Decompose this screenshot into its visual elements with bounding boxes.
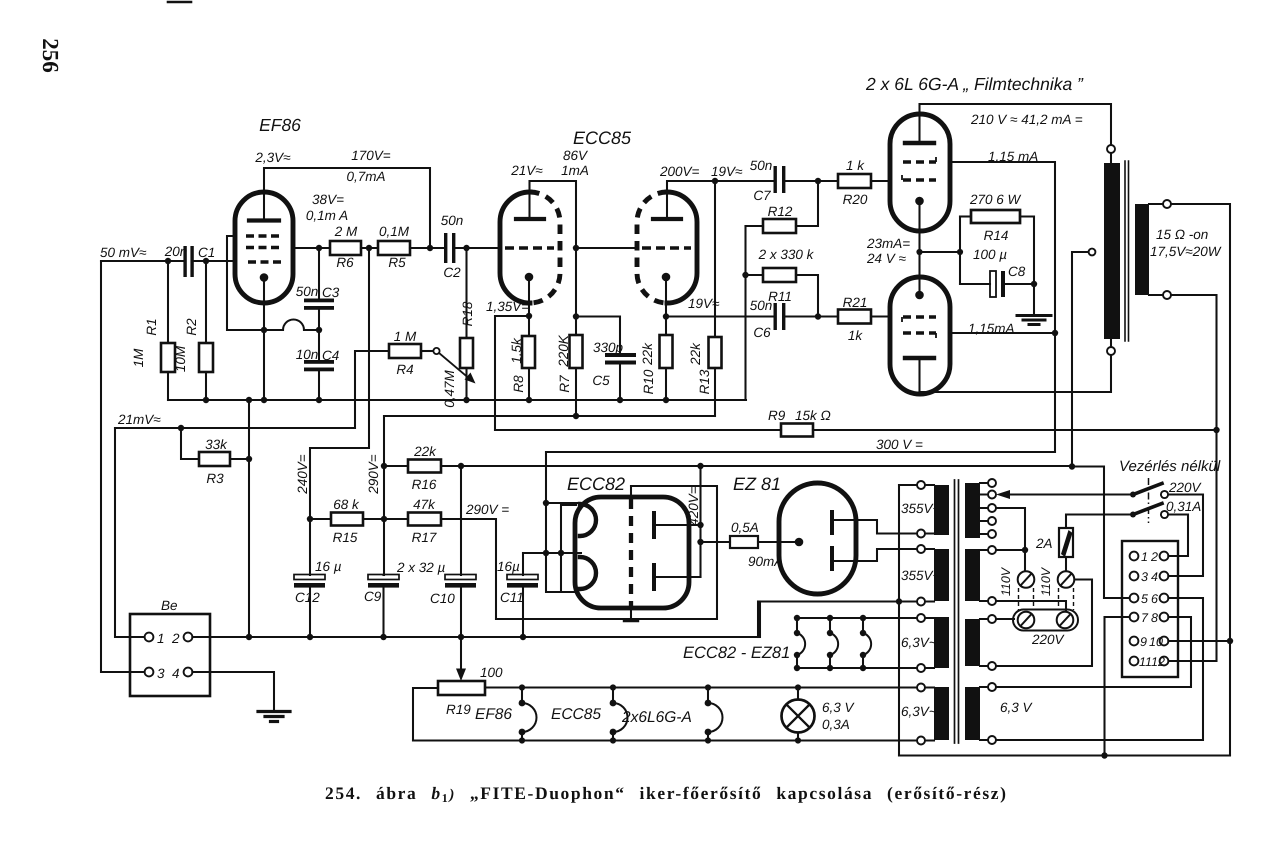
caption	[325, 783, 1008, 805]
svg-text:C12: C12	[295, 590, 320, 605]
label Vezerles nelkul	[1119, 458, 1221, 475]
svg-text:254. ábra b1) „FITE-Duopho: 254. ábra b1) „FITE-Duophon“ iker-főerős…	[325, 783, 1008, 805]
svg-text:256: 256	[38, 38, 63, 73]
label 2x6L6G-A Filmtechnika title	[865, 74, 1084, 94]
power transformer primary bars (right)	[965, 483, 980, 740]
svg-text:3: 3	[157, 666, 165, 681]
label 19V cathode	[688, 296, 720, 311]
wire: t1 plate to t2 grid	[576, 247, 637, 249]
wire: heater bottom rail	[413, 739, 917, 741]
label R9 (R9, 15kΩ)	[768, 408, 831, 423]
svg-text:R12: R12	[768, 204, 793, 219]
svg-text:ECC82 - EZ81: ECC82 - EZ81	[683, 644, 790, 662]
junction dot C8 right	[1031, 281, 1037, 287]
wire: centre tap to 420V line	[1072, 252, 1089, 467]
svg-text:22k: 22k	[688, 342, 703, 366]
svg-text:1,15mA: 1,15mA	[968, 321, 1015, 336]
wire: input drop to Be pin3	[101, 261, 145, 672]
svg-text:EF86: EF86	[259, 115, 301, 135]
svg-text:23mA=: 23mA=	[866, 236, 910, 251]
junction dots cathode node 1,35V	[526, 245, 579, 320]
svg-text:200V=: 200V=	[659, 164, 700, 179]
voltage selector plug 110V #1	[1018, 571, 1035, 588]
svg-text:270 6 W: 270 6 W	[969, 192, 1022, 207]
heater hump 2	[829, 618, 831, 668]
220V linking bar	[1013, 610, 1078, 631]
EZ81 cathode dot	[795, 538, 804, 547]
wire: EF86 screen out to R6	[293, 247, 330, 249]
svg-text:17,5V≈20W: 17,5V≈20W	[1150, 244, 1222, 259]
svg-text:0,1M: 0,1M	[379, 224, 410, 239]
svg-text:110V: 110V	[1039, 566, 1053, 596]
resistor R7	[575, 317, 577, 335]
label heater 2x6L6G-A	[621, 709, 692, 726]
chassis ground symbol	[258, 712, 290, 722]
6L6 upper grid dashes	[902, 175, 936, 180]
label EZ81 title	[733, 474, 781, 494]
label 2A	[1035, 536, 1053, 551]
svg-text:2A: 2A	[1035, 536, 1053, 551]
svg-text:0,5A: 0,5A	[731, 520, 759, 535]
junction dots 420V line	[458, 463, 1075, 470]
svg-text:2,3V≈: 2,3V≈	[254, 150, 291, 165]
label 220V	[1031, 632, 1066, 647]
wire: C6 to R21	[785, 315, 838, 317]
svg-text:1M: 1M	[131, 348, 146, 368]
6L6 upper anode bar	[905, 141, 934, 145]
svg-text:ECC85: ECC85	[573, 128, 632, 148]
svg-text:1 k: 1 k	[846, 158, 865, 173]
svg-text:R2: R2	[184, 318, 199, 336]
svg-text:R6: R6	[336, 255, 354, 270]
wire: R16 output 420V line to connector pin5	[441, 466, 1104, 598]
junction dots cathode node 23mA	[916, 249, 963, 255]
wire: tap 550 to junction	[996, 549, 1025, 551]
wire: R14 right leg to ground	[1033, 217, 1035, 315]
label C10	[430, 591, 455, 606]
label 2x330k	[758, 247, 815, 262]
resistor R1	[167, 261, 169, 343]
wire: ground drop from rail A through R3 node to bottom rail	[248, 400, 250, 637]
svg-text:5: 5	[1141, 592, 1148, 606]
label C2 (50n, C2)	[441, 213, 464, 280]
label 0,31A	[1166, 499, 1201, 514]
label R8 (1,5k, R8) rotated	[509, 337, 526, 393]
svg-text:15 Ω -on: 15 Ω -on	[1156, 227, 1208, 242]
label R19 (100, R19)	[446, 665, 503, 717]
capacitor C11 (electrolytic)	[522, 553, 524, 575]
ECC82 anode arcs	[580, 504, 596, 536]
svg-text:C11: C11	[500, 590, 524, 605]
svg-text:R13: R13	[697, 369, 712, 394]
wire: tap 508 jumper down	[996, 508, 1025, 571]
6L6 upper screen dashes	[903, 157, 936, 162]
junction dot R9 to secondary line	[1213, 427, 1219, 433]
resistor R14	[960, 215, 971, 217]
label 240V rotated	[295, 454, 310, 495]
svg-text:50n: 50n	[441, 213, 464, 228]
capacitor C9 (electrolytic)	[382, 574, 385, 576]
label 210V 41,2mA	[970, 112, 1083, 127]
label R6 (2M, R6)	[334, 224, 358, 270]
selector dashed guides	[1019, 588, 1074, 610]
potentiometer R18 body	[465, 248, 467, 338]
svg-text:R11: R11	[768, 289, 792, 304]
svg-text:C3: C3	[322, 285, 340, 300]
wire: upper anode to output transformer top	[920, 104, 1112, 145]
svg-text:355V~: 355V~	[901, 568, 941, 583]
output transformer primary bottom terminal	[1107, 347, 1115, 355]
svg-text:1 M: 1 M	[394, 329, 417, 344]
wire: Be pin4 to chassis ground	[192, 672, 274, 711]
label C1 values (20n, C1)	[164, 244, 216, 260]
label R5 (0,1M, R5)	[379, 224, 410, 270]
resistor R9 in feedback line	[495, 429, 781, 431]
tube ECC82 envelope	[575, 497, 689, 608]
label 170V / 0,7mA	[346, 148, 390, 184]
wire: secondary top to common rail (right edge)	[1171, 204, 1230, 755]
wire: C7 to R20	[785, 180, 838, 182]
6L6 lower anode bar	[905, 356, 934, 360]
wire: switch pole 2 to pin2	[1168, 515, 1188, 557]
wire: upper screen to screens node	[950, 162, 1055, 452]
wire: R6 to R5	[361, 247, 378, 249]
svg-text:ECC82: ECC82	[567, 474, 625, 494]
resistor R5	[378, 241, 410, 255]
wire: common drop to ground rail	[759, 602, 761, 638]
wire: C11 top to 300V branch	[523, 552, 546, 554]
mains input arrowhead	[996, 490, 1010, 499]
6L6 upper cathode dot	[915, 197, 924, 206]
svg-text:220V: 220V	[1031, 632, 1066, 647]
label R4 (1M, R4)	[394, 329, 417, 377]
svg-text:R10: R10	[641, 369, 656, 394]
label ECC85 title	[573, 128, 632, 148]
wire: Be pin2 to ground rail	[192, 636, 758, 638]
svg-text:6,3 V: 6,3 V	[1000, 700, 1034, 715]
junction dot R3 right	[246, 456, 252, 462]
label R20 (1k, R20)	[843, 158, 868, 207]
capacitor C10 (electrolytic)	[460, 466, 462, 575]
label C4 (10n, C4)	[296, 347, 340, 363]
wire: ECC82/EZ81 heater bottom rail	[797, 667, 917, 669]
label C7 (50n, C7)	[750, 158, 773, 203]
label heater ECC85	[551, 706, 601, 723]
label R12	[768, 204, 793, 219]
fuse 0,5A	[701, 541, 731, 543]
svg-text:220V: 220V	[1168, 480, 1203, 495]
svg-text:3: 3	[1141, 570, 1148, 584]
label 38V= / 0,1mA	[306, 192, 348, 223]
junction dot C3/C4 node	[316, 327, 322, 333]
heater hump 1	[796, 618, 798, 668]
label R15 (68k, R15)	[333, 497, 360, 545]
Be pin terminals	[145, 633, 154, 642]
svg-text:R7: R7	[557, 375, 572, 393]
label 420V rotated	[686, 486, 701, 526]
wire: arc to C3/C4 node	[304, 329, 319, 331]
label C6 (50n, C6)	[750, 298, 773, 340]
label 290V = at R17 output	[465, 502, 509, 517]
resistor R12	[746, 225, 764, 227]
svg-text:100 µ: 100 µ	[973, 247, 1007, 262]
wire: plate node to C5	[576, 317, 620, 354]
node: 21mV label	[117, 412, 161, 427]
output transformer secondary terminals	[1163, 200, 1171, 208]
svg-text:ECC85: ECC85	[551, 706, 601, 723]
wire: tap 666 up to 110V plug #2	[996, 580, 1092, 667]
left terminal stubs	[925, 485, 934, 741]
svg-text:4: 4	[1151, 570, 1158, 584]
tube EF86 V1 envelope	[235, 192, 293, 303]
svg-text:1,5k: 1,5k	[509, 337, 524, 364]
label 200V= / 19V	[659, 164, 743, 179]
svg-text:420V=: 420V=	[686, 486, 701, 526]
svg-text:24 V ≈: 24 V ≈	[866, 251, 907, 266]
tube EZ81 envelope	[779, 483, 856, 594]
resistor R3	[199, 452, 230, 466]
label 1,15mA upper	[988, 149, 1038, 164]
tube ECC85 triode 1 envelope (dashed right half)	[530, 192, 560, 303]
label 355V~ upper	[901, 501, 941, 516]
svg-text:50n: 50n	[296, 284, 319, 299]
switch mechanical link (dash-dot)	[1148, 478, 1150, 523]
wire: R19 left to heater bottom rail	[413, 688, 438, 741]
svg-text:86V: 86V	[563, 148, 589, 163]
junction dot pin10/speaker	[1227, 638, 1233, 644]
svg-text:33k: 33k	[205, 437, 228, 452]
tube 6L6 upper envelope	[890, 114, 950, 231]
output transformer secondary winding	[1135, 204, 1149, 295]
svg-text:Vezérlés nélkül: Vezérlés nélkül	[1119, 458, 1221, 475]
label 1,15mA lower	[968, 321, 1015, 336]
capacitor C1	[183, 246, 193, 277]
svg-text:355V~: 355V~	[901, 501, 941, 516]
heater 2x6L6G-A	[707, 688, 709, 741]
junction dots on ground rail	[246, 634, 526, 640]
wire: R14 left leg	[959, 217, 961, 285]
pilot lamp 6,3V 0,3A	[782, 700, 815, 733]
svg-text:19V≈: 19V≈	[711, 164, 743, 179]
potentiometer R18 wiper terminal	[433, 348, 439, 354]
svg-text:50n: 50n	[750, 158, 773, 173]
ECC85 t1 anode bar	[516, 217, 544, 221]
svg-text:2 x 32 µ: 2 x 32 µ	[396, 560, 446, 575]
label 300V=	[876, 437, 923, 452]
svg-text:R14: R14	[984, 228, 1009, 243]
svg-text:C9: C9	[364, 589, 382, 604]
svg-text:240V=: 240V=	[295, 454, 310, 495]
capacitor C5	[605, 353, 636, 365]
wire: grid-circuit box (290V return)	[496, 486, 717, 619]
tube ECC85 triode 2 envelope (dashed left half)	[637, 192, 667, 303]
junction dot C2/R18	[463, 245, 469, 251]
wire: EZ81 lower anode to 355V winding	[834, 549, 917, 561]
svg-text:C2: C2	[443, 265, 461, 280]
label R10 (22k, R10) rotated	[640, 342, 656, 395]
svg-text:Be: Be	[161, 598, 178, 613]
power transformer secondary bars (left)	[934, 485, 949, 740]
svg-text:R21: R21	[843, 295, 868, 310]
wire: lower screen to screens node	[950, 332, 1055, 334]
svg-text:2: 2	[171, 631, 180, 646]
junction dots 420V vertical	[697, 522, 703, 545]
svg-text:2 x 6L 6G-A „ Filmtechnika ”: 2 x 6L 6G-A „ Filmtechnika ”	[865, 74, 1084, 94]
capacitor C12 (electrolytic)	[294, 575, 325, 580]
6L6 lower grid dashes	[902, 317, 936, 322]
junction dot cathode/g3	[261, 327, 267, 333]
resistor R15	[310, 518, 331, 520]
label 2x32u	[396, 560, 446, 575]
label node 2,3V	[254, 150, 291, 165]
label R21 (R21, 1k)	[843, 295, 868, 343]
wire: 300V down leg to ECC82 plates side	[546, 452, 576, 592]
wire: 355V top terminal to centre-tap vertical	[899, 484, 917, 486]
resistor R16	[384, 465, 408, 467]
svg-text:220K: 220K	[556, 334, 571, 368]
svg-text:R19: R19	[446, 702, 471, 717]
junction dot screen/C3	[316, 245, 322, 251]
svg-text:4: 4	[172, 666, 180, 681]
6L6 lower cathode dot	[915, 291, 924, 300]
label 220V switch	[1168, 480, 1203, 495]
svg-text:6: 6	[1151, 592, 1158, 606]
svg-text:1: 1	[1141, 550, 1148, 564]
junction dot tap junction	[1022, 547, 1028, 553]
resistor R4	[389, 344, 421, 358]
6L6 lower screen dashes	[903, 333, 936, 338]
output transformer primary winding	[1104, 163, 1120, 339]
label fuse (0,5A / 90mA)	[731, 520, 783, 569]
junction dots on 300V leg	[543, 500, 564, 556]
wire: fuse top to switch pole 2	[1066, 515, 1133, 529]
connector Be box	[130, 614, 210, 696]
label R3 (33k, R3)	[205, 437, 228, 486]
junction dot 240V takeoff	[366, 245, 372, 251]
svg-text:38V=: 38V=	[312, 192, 344, 207]
svg-text:C6: C6	[753, 325, 771, 340]
junction dots 290V chain	[307, 463, 387, 522]
heater EF86	[521, 688, 523, 741]
wire: 21mV feedback line	[115, 427, 355, 429]
svg-text:0,1m A: 0,1m A	[306, 208, 348, 223]
label 23mA= / 24V	[866, 236, 910, 266]
heater hump 3	[862, 618, 864, 668]
output transformer primary top terminal	[1107, 145, 1115, 153]
wire: R4 from 21mV line	[355, 351, 389, 428]
wire: mains tap to switch pole 1	[1010, 493, 1133, 495]
mains switch pole 1	[1130, 492, 1136, 498]
svg-text:170V=: 170V=	[351, 148, 391, 163]
power transformer core	[954, 480, 956, 743]
label EF86 title	[259, 115, 301, 135]
potentiometer R19 feed arrow from ground rail	[460, 637, 462, 669]
wire: input 50mV line to C1	[101, 260, 183, 262]
wire: 420V vertical at EZ81 output	[699, 466, 701, 577]
wire: 6,3V right winding top to connector pin8	[996, 617, 1191, 687]
svg-text:C4: C4	[322, 348, 339, 363]
label C12 (16u, C12)	[295, 559, 342, 605]
capacitor C2	[444, 233, 455, 263]
junction dot 21mV/R3	[178, 425, 184, 431]
wire: cathode node to R14/C8	[920, 251, 961, 253]
tube 6L6 lower envelope	[890, 277, 950, 394]
wire: t2 cathode lead	[665, 281, 667, 335]
label connector pin numbers	[1139, 550, 1165, 669]
ECC82 grid line (dashed) with extensions	[629, 499, 633, 606]
wire: pin5 to 420V drop	[1104, 597, 1130, 599]
svg-text:2x6L6G-A: 2x6L6G-A	[621, 709, 692, 726]
svg-text:10M: 10M	[173, 345, 188, 372]
svg-text:C1: C1	[198, 245, 215, 260]
resistor R10	[660, 335, 673, 368]
wire: t2 anode riser to 200V line	[667, 181, 775, 219]
svg-text:0,47M: 0,47M	[442, 369, 457, 407]
ECC85 t2 grid dashes	[642, 246, 691, 250]
label C5 (330p, C5)	[592, 340, 623, 388]
svg-text:C10: C10	[430, 591, 455, 606]
wire: secondary bottom to pin12 line	[1169, 295, 1217, 661]
wire: pin10 to speaker common	[1168, 640, 1230, 642]
label R2 (R2, 10M) rotated	[173, 318, 199, 372]
left winding terminals	[917, 481, 925, 745]
svg-text:R15: R15	[333, 530, 358, 545]
label R7 (220K, R7) rotated	[556, 334, 572, 392]
label C3 (50n, C3)	[296, 284, 340, 300]
wire: EF86 anode riser to 170V line	[264, 168, 430, 248]
connector terminals right column	[1160, 552, 1169, 666]
label C8	[1008, 264, 1026, 279]
label 355V~ lower	[901, 568, 941, 583]
svg-text:7: 7	[1141, 611, 1149, 625]
220V plug circles	[1018, 612, 1035, 629]
junction dot R11 left	[742, 272, 748, 278]
svg-text:300 V =: 300 V =	[876, 437, 923, 452]
label R17 (47k, R17)	[412, 497, 437, 545]
junction dot pin7/common	[1101, 752, 1107, 758]
svg-text:R3: R3	[206, 471, 224, 486]
svg-text:12: 12	[1151, 655, 1165, 669]
output transformer centre-tap terminal	[1089, 249, 1096, 256]
wire: tap 601 to 220V link	[996, 601, 1066, 611]
junction dot 19V cathode node	[663, 313, 669, 319]
label C11 (16u, C11)	[497, 559, 524, 605]
svg-text:330p: 330p	[593, 340, 624, 355]
label 21V anode	[510, 163, 543, 178]
svg-text:2 M: 2 M	[334, 224, 358, 239]
EF86 cathode dot	[260, 273, 269, 282]
wire: t1 anode riser to plate node	[530, 181, 577, 317]
capacitor C3	[318, 248, 320, 299]
page number 256 (rotated)	[38, 38, 63, 73]
svg-text:2: 2	[1150, 550, 1158, 564]
svg-text:R4: R4	[396, 362, 413, 377]
label 6,3V~ upper	[901, 635, 937, 650]
svg-text:R9: R9	[768, 408, 786, 423]
wire: 21mV drop to Be pin1	[115, 428, 145, 637]
svg-text:15k Ω: 15k Ω	[795, 408, 831, 423]
label 110V #1 rotated	[999, 566, 1013, 596]
wire: R3 link down	[181, 428, 199, 459]
junction dot 170V/R5/C2	[427, 245, 433, 251]
svg-text:9: 9	[1140, 635, 1147, 649]
svg-text:R16: R16	[412, 477, 437, 492]
wire: ground rail up to 355V common	[757, 602, 759, 638]
label R16 (22k, R16)	[412, 444, 438, 492]
resistor R20	[838, 174, 871, 188]
junction dot C6/R11	[815, 313, 821, 319]
svg-text:47k: 47k	[413, 497, 436, 512]
